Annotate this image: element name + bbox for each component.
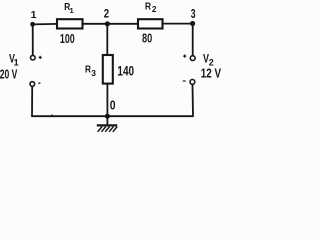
wire left branch: node 1 down to V1 + terminal <box>32 24 34 55</box>
node 2 <box>105 21 110 26</box>
svg-text:0: 0 <box>110 98 116 112</box>
svg-text:R: R <box>145 0 152 12</box>
svg-text:12 V: 12 V <box>201 67 222 81</box>
wire top rail: node 2 to R2 <box>108 23 138 25</box>
wire middle branch: node 2 down to R3 <box>106 24 108 55</box>
V2 - terminal <box>190 80 195 85</box>
svg-text:20 V: 20 V <box>0 68 18 82</box>
V1 plus sign <box>39 56 42 58</box>
resistor R3 <box>103 55 113 84</box>
svg-text:3: 3 <box>91 68 96 78</box>
V1 - terminal <box>30 82 35 87</box>
ground <box>97 125 117 131</box>
wire left branch: V1 - terminal down to bottom rail <box>31 86 33 117</box>
node 1 <box>30 22 35 27</box>
svg-text:1: 1 <box>14 57 19 67</box>
wire right branch: V2 - terminal down to bottom rail <box>192 84 195 117</box>
wire top rail: node 1 to R1 <box>33 23 58 26</box>
resistor R2 <box>138 19 163 28</box>
resistor R1 <box>57 19 83 28</box>
wire top rail: R2 to node 3 <box>163 23 193 25</box>
V2 + terminal <box>190 56 195 61</box>
wire top rail: R1 to node 2 <box>83 23 108 25</box>
svg-text:2: 2 <box>152 5 157 14</box>
wire right branch: node 3 down to V2 + terminal <box>192 24 194 56</box>
wire bottom rail <box>32 115 193 117</box>
V2 plus sign <box>183 55 186 57</box>
V1 + terminal <box>31 55 36 60</box>
V2 minus sign <box>183 80 186 82</box>
svg-text:3: 3 <box>191 6 196 21</box>
node 3 <box>190 21 195 26</box>
wire ground stub <box>106 116 108 124</box>
svg-text:100: 100 <box>60 32 75 46</box>
V1 minus sign <box>38 82 40 84</box>
svg-text:1: 1 <box>31 9 37 21</box>
node 0 <box>105 114 110 119</box>
svg-text:2: 2 <box>104 7 110 21</box>
svg-text:140: 140 <box>117 64 134 79</box>
speckle on bottom rail <box>51 115 53 116</box>
wire middle branch: R3 down to node 0 <box>106 84 108 117</box>
svg-text:80: 80 <box>142 32 152 46</box>
